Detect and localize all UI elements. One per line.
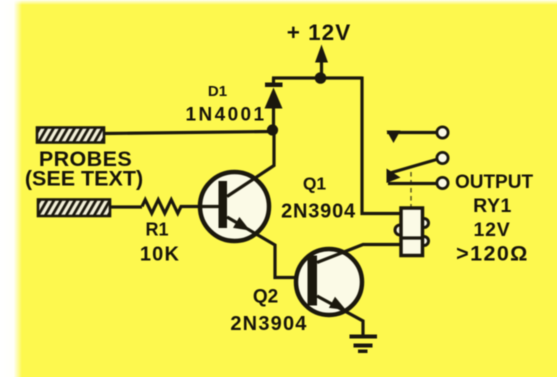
ground [350,335,378,354]
resistor R1 [142,200,199,214]
svg-text:OUTPUT: OUTPUT [455,172,534,193]
left page edge [0,0,22,377]
svg-text:12V: 12V [473,219,510,241]
svg-text:Q2: Q2 [253,287,278,308]
svg-text:RY1: RY1 [473,195,512,217]
svg-text:D1: D1 [208,83,227,100]
wire: right rail down to relay coil [362,77,401,214]
relay contact: lower line [388,182,436,185]
relay armature [387,160,437,184]
node: +12V junction dot [315,72,327,84]
relay contact terminal circle 2 [437,152,448,163]
wire: diode top stub [272,78,275,83]
relay contact terminal circle 3 [437,177,448,188]
svg-text:10K: 10K [140,244,180,266]
svg-text:R1: R1 [145,220,168,240]
wire: top probe to diode node [104,132,272,134]
svg-text:2N3904: 2N3904 [230,313,307,335]
svg-text:Q1: Q1 [303,174,327,194]
svg-text:>120Ω: >120Ω [456,241,529,265]
relay coil RY1 [395,208,429,256]
probe tip 1 [37,128,104,143]
relay contact terminal circle 1 [437,127,448,138]
transistor Q2 [296,245,401,336]
node: probe junction dot [267,124,278,135]
svg-text:2N3904: 2N3904 [281,201,356,223]
wire: top rail [272,76,362,79]
top page edge [0,0,557,5]
probe tip 2 [38,200,110,217]
+12V arrow [315,45,328,77]
svg-text:+ 12V: + 12V [287,20,351,45]
svg-text:1N4001: 1N4001 [186,105,267,126]
wire: probe 2 to resistor [110,205,142,208]
transistor Q1 [199,133,303,278]
svg-text:(SEE TEXT): (SEE TEXT) [25,167,143,191]
relay contact: upper fixed contact [387,131,437,144]
relay mechanical link (dashed) [410,172,412,208]
diode D1 [265,83,283,134]
